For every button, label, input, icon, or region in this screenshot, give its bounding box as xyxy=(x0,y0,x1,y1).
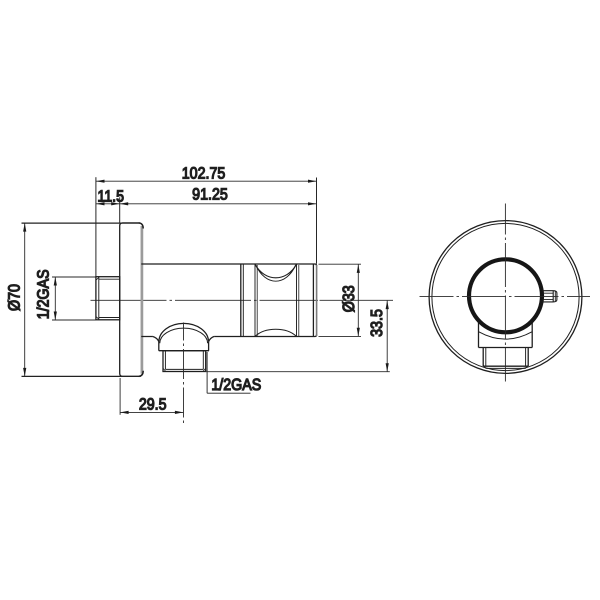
arrow D33 bottom xyxy=(357,328,360,337)
wire centerline front view horizontal xyxy=(420,295,591,297)
dimension D33 right of holder xyxy=(319,264,362,336)
arrow 29.5 left xyxy=(120,411,129,414)
screw detail right side front view xyxy=(542,291,557,302)
holder cylinder end piece xyxy=(241,264,317,337)
front view outer flange circle xyxy=(429,221,582,374)
arrow 1/2GAS bottom xyxy=(54,312,57,321)
svg-text:102.75: 102.75 xyxy=(182,164,226,182)
svg-text:29.5: 29.5 xyxy=(139,396,167,414)
front view outlet upper rect xyxy=(479,321,533,348)
arrow 91.25 left xyxy=(120,202,129,205)
arrow D70 bottom xyxy=(23,368,26,377)
svg-text:Ø70: Ø70 xyxy=(5,284,23,311)
arrowheads xyxy=(23,180,389,414)
thread stub left 1/2GAS side view xyxy=(96,277,120,320)
front view holder knurled ring xyxy=(469,259,542,332)
dimension 29.5 bottom xyxy=(120,378,183,415)
leader line 1/2GAS bottom label xyxy=(207,352,250,393)
outlet bell dome side view xyxy=(152,323,214,350)
arrow 91.25 right xyxy=(308,202,317,205)
svg-text:Ø33: Ø33 xyxy=(340,285,358,312)
dimension 33.5 right xyxy=(206,301,390,372)
arrow 33.5 bottom xyxy=(386,363,389,372)
outlet thread stub bottom side view xyxy=(163,351,206,372)
dimension 102.75 top xyxy=(96,177,317,276)
svg-text:91.25: 91.25 xyxy=(192,186,228,204)
dimension D70 left xyxy=(22,223,141,376)
svg-text:1/2GAS: 1/2GAS xyxy=(34,269,52,319)
wire centerline front view vertical xyxy=(504,204,506,382)
svg-text:1/2GAS: 1/2GAS xyxy=(211,376,261,394)
front view outlet thread rect xyxy=(483,348,528,369)
flange wall plate side view xyxy=(120,223,144,377)
dimension 91.25 / 11.5 line xyxy=(96,197,317,222)
arrow 102.75 left xyxy=(96,180,105,183)
wire centerline outlet vertical xyxy=(183,323,185,424)
arrow 11.5 left xyxy=(96,202,105,205)
arrow 102.75 right xyxy=(308,180,317,183)
arrow 1/2GAS top xyxy=(54,277,57,286)
front view second flange circle xyxy=(432,223,579,370)
arrow D70 top xyxy=(23,223,26,232)
barrel body bottom edge xyxy=(141,335,316,337)
svg-text:11.5: 11.5 xyxy=(97,187,124,205)
svg-text:33.5: 33.5 xyxy=(368,309,386,337)
wire centerline extension for 33.5 dim xyxy=(320,299,394,301)
barrel body top edge xyxy=(141,264,316,266)
arrow D33 top xyxy=(357,264,360,273)
arrow 11.5 right xyxy=(111,202,120,205)
arrow 29.5 right xyxy=(175,411,184,414)
arrow 33.5 top xyxy=(386,301,389,310)
wire centerline main axis side view xyxy=(91,299,319,301)
dimension 1/2GAS left thread xyxy=(52,277,96,320)
